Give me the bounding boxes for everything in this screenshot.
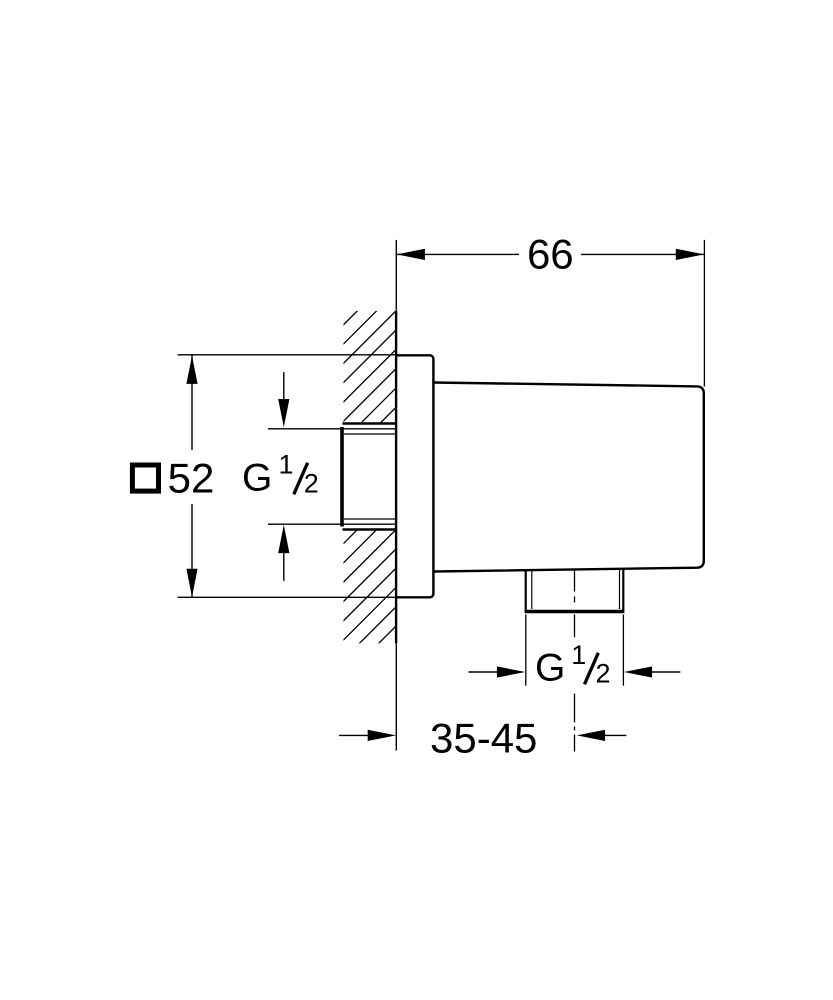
svg-text:1: 1 [571, 640, 586, 670]
svg-text:66: 66 [527, 231, 574, 278]
svg-text:2: 2 [596, 658, 611, 688]
svg-text:52: 52 [168, 454, 215, 501]
svg-text:G: G [535, 646, 565, 689]
svg-text:1: 1 [279, 450, 294, 480]
svg-text:G: G [242, 456, 272, 499]
svg-text:2: 2 [304, 468, 319, 498]
svg-text:35-45: 35-45 [430, 714, 537, 761]
